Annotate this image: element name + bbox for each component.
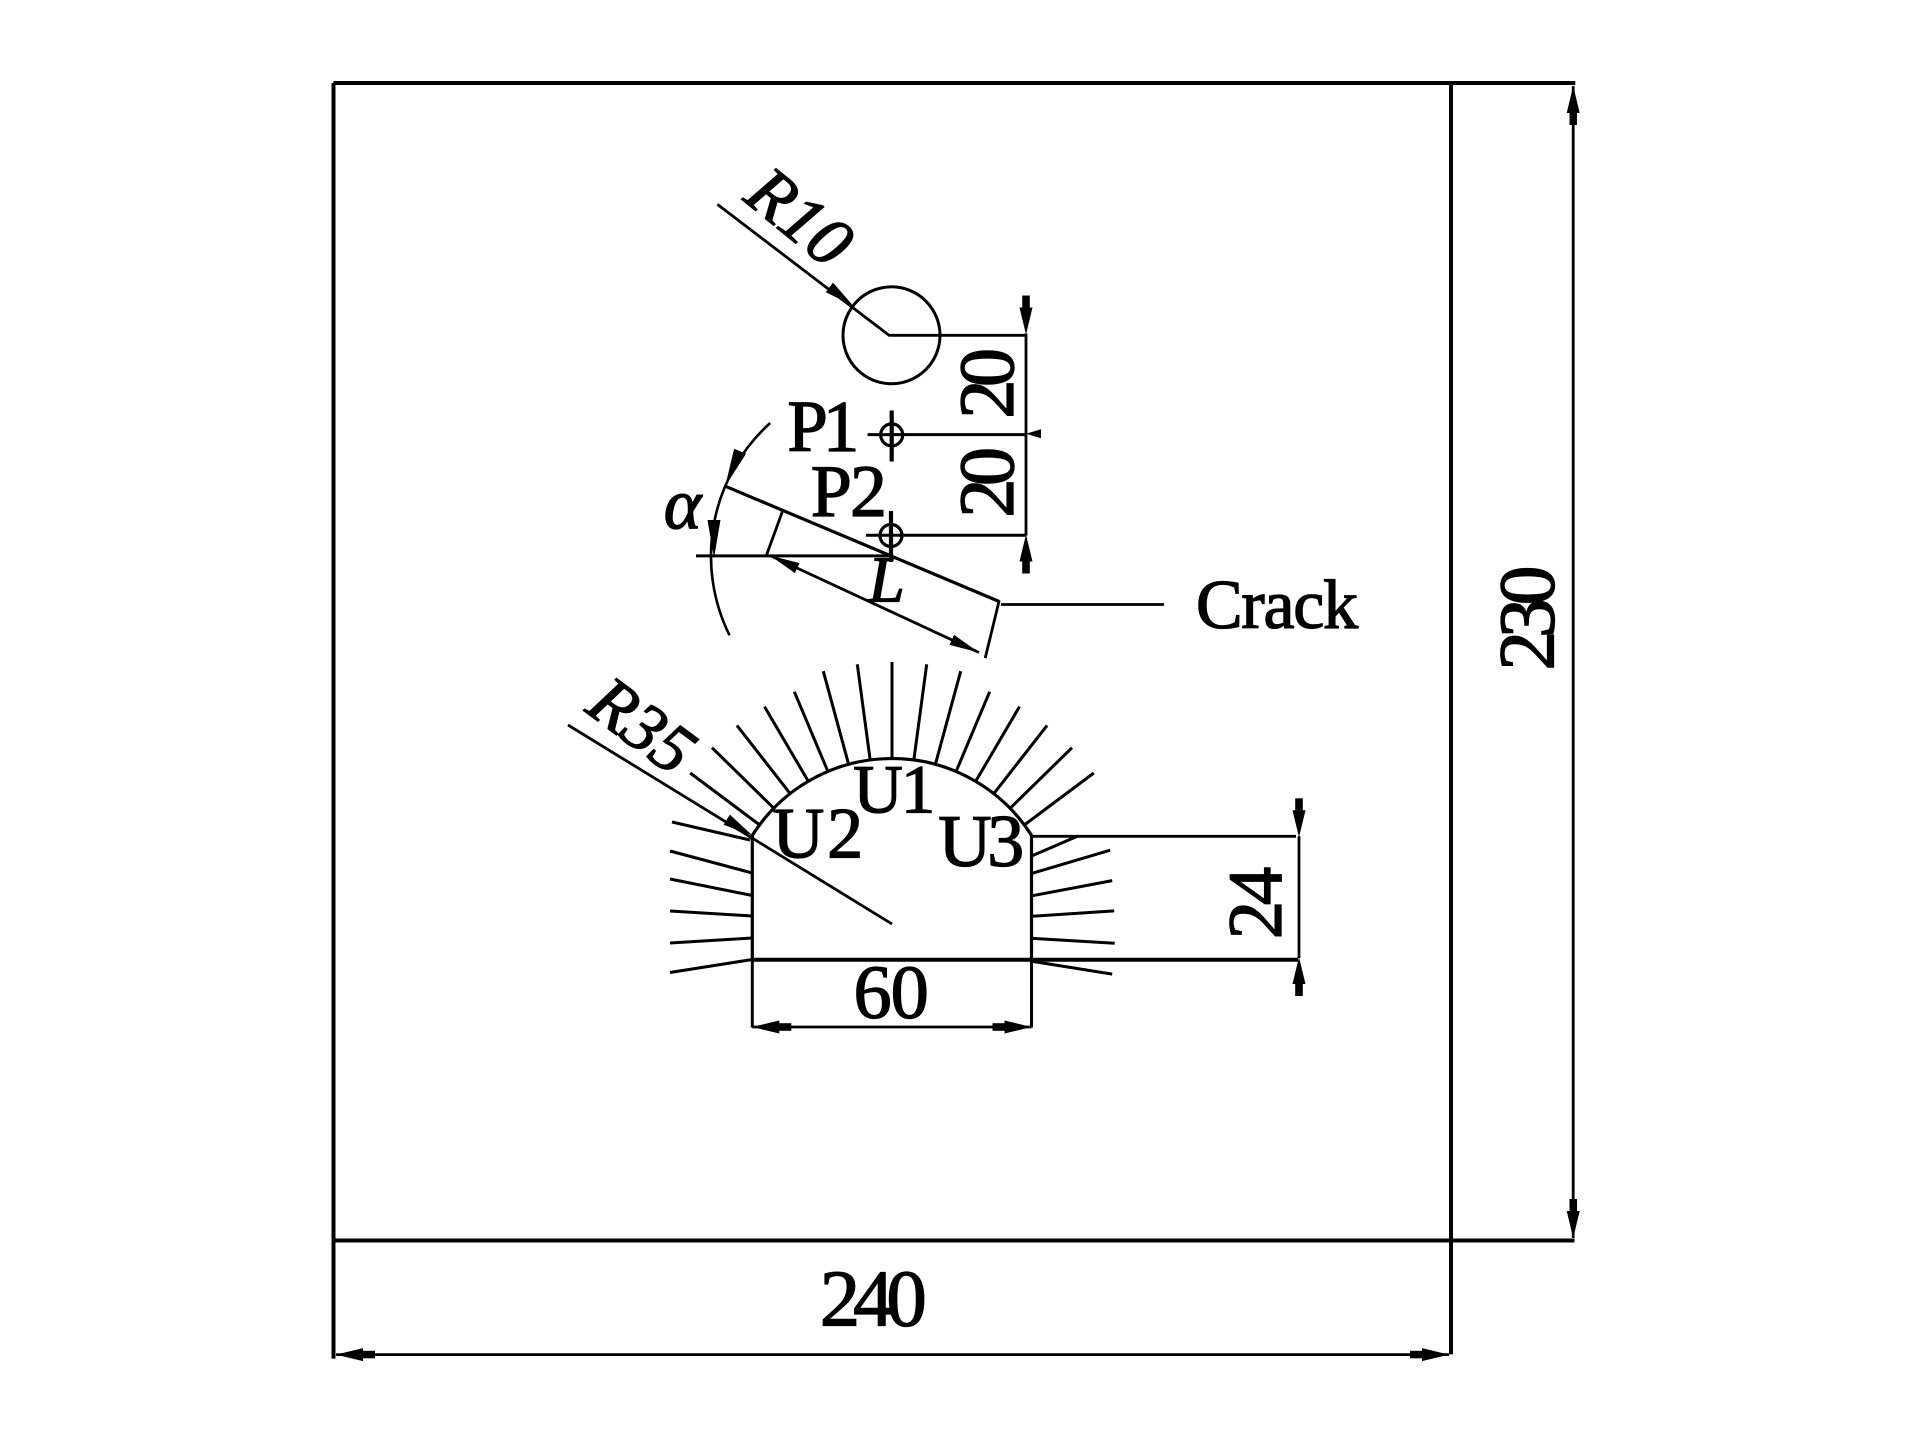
dimension 240 line [336, 1353, 1449, 1356]
svg-text:P2: P2 [811, 450, 887, 532]
L dim right extension tick at crack tip [985, 600, 999, 658]
tunnel floor line + 24-dim bottom extension [751, 958, 1298, 962]
svg-text:240: 240 [820, 1254, 927, 1343]
crack line [726, 486, 1000, 601]
right wall hatch lines [1033, 836, 1115, 974]
right wall extension to 60 dim [1030, 960, 1033, 1028]
square top edge + extension to 230 dim [334, 81, 1576, 85]
left wall extension to 60 dim [751, 960, 754, 1028]
dimension 20/20 vertical line [1025, 334, 1028, 536]
circle R10 hole [843, 287, 940, 384]
svg-text:L: L [867, 545, 904, 617]
dimension 24 line [1298, 836, 1301, 958]
point P1 symbol [881, 411, 903, 462]
svg-text:230: 230 [1483, 566, 1571, 671]
square bottom edge + extension to 230 dim [334, 1239, 1575, 1243]
svg-text:20: 20 [943, 447, 1030, 518]
svg-text:U3: U3 [938, 800, 1024, 882]
crack leader line [1001, 603, 1164, 606]
R10 leader line [717, 204, 890, 336]
svg-text:α: α [664, 466, 703, 545]
line circle centre to 20-dim [890, 334, 1026, 337]
square right edge + extension to 240 dim [1449, 83, 1453, 1354]
left wall hatch lines [670, 851, 752, 973]
svg-text:20: 20 [943, 348, 1030, 419]
angle alpha arc [711, 423, 770, 635]
R35 leader line to arc centre [568, 725, 892, 924]
svg-text:U2: U2 [772, 794, 863, 874]
P2 horizontal line to 20-dim [866, 534, 1026, 537]
L dimension line [770, 556, 979, 653]
angle arc arrowhead on crack side [725, 449, 746, 487]
svg-text:60: 60 [854, 950, 929, 1035]
angle alpha baseline [696, 554, 890, 557]
point P2 symbol [880, 511, 902, 562]
L dim left extension tick [766, 512, 782, 557]
angle arc arrowhead on baseline side [708, 520, 721, 558]
square left edge + extension to 240 dim [332, 83, 336, 1359]
left springing hatch [672, 822, 750, 840]
svg-text:24: 24 [1212, 867, 1298, 940]
svg-text:U1: U1 [853, 752, 935, 828]
dimension 60 line [752, 1026, 1031, 1029]
radial hatch lines around tunnel arch [690, 662, 1094, 825]
24-dim top extension line [1032, 835, 1297, 838]
tunnel opening outline [752, 759, 1031, 960]
P1 horizontal line to 20-dim [868, 433, 1026, 436]
svg-text:Crack: Crack [1196, 567, 1358, 644]
dimension 230 line [1572, 86, 1575, 1238]
